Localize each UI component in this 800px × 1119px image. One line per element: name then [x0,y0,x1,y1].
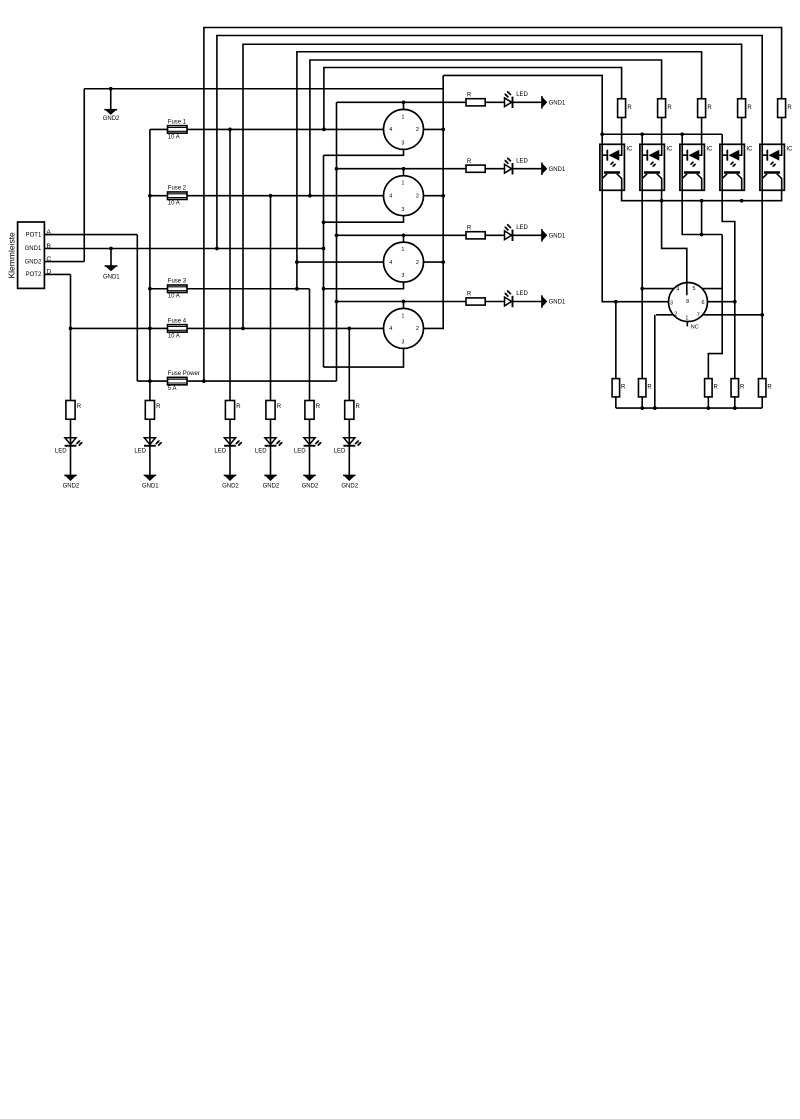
wire IC4 cathode stub [721,134,723,144]
wire CON4 pin1 stub [403,301,405,308]
wire CON5 pin1 stub NC [686,321,688,326]
optocoupler IC5 [760,144,785,190]
wire fuse4 output to conn4 [187,327,384,329]
svg-text:2: 2 [416,326,419,332]
svg-text:3: 3 [401,340,404,346]
svg-text:R: R [467,292,472,298]
svg-text:GND1: GND1 [549,167,566,173]
svg-text:5: 5 [693,286,696,292]
svg-text:5 A: 5 A [168,386,177,392]
node IC2 cathode [640,132,644,136]
svg-text:R: R [356,404,361,410]
svg-text:LED: LED [516,291,528,297]
svg-text:LED: LED [255,448,267,454]
wire D vertical [70,274,72,400]
wire R1 to IC1 [621,118,623,145]
fuse Fuse Power 5 A [168,377,188,385]
resistor R LED ground GND2 column 3 [225,401,234,420]
svg-text:GND2: GND2 [63,484,80,490]
node emitter IC4 [740,199,744,203]
svg-text:R: R [236,404,241,410]
wire IC2 collector vertical [641,190,643,378]
node fuse power input [148,379,152,383]
svg-text:4: 4 [389,326,392,332]
wire line1 top [204,28,782,382]
node conn3 pin4 branch [295,260,299,264]
wire IC cathode rail [602,133,722,135]
wire conn2 pin2 [424,195,444,197]
node emitter IC2 [660,199,664,203]
svg-text:IC: IC [786,146,793,152]
wire line2 top [217,36,762,249]
svg-text:R: R [627,105,632,111]
resistor R LED ground GND2 column 6 [345,401,354,420]
svg-text:R: R [747,105,752,111]
resistor R LED ground GND1 column 2 [145,401,154,420]
node rows bus row3 [335,233,339,237]
svg-text:GND2: GND2 [103,116,120,122]
wire fuse1 input [150,128,168,130]
wire CON1 pin1 stub [403,102,405,109]
svg-text:GND1: GND1 [549,234,566,240]
wire pin B GND1 [44,248,323,250]
optocoupler IC3 [680,144,705,190]
svg-text:R: R [277,404,282,410]
optocoupler IC4 [720,144,745,190]
svg-text:3: 3 [670,300,673,306]
wire CON2 pin1 stub [403,169,405,176]
svg-text:R: R [647,384,652,390]
resistor R vertical 1 top right [618,99,626,118]
wire GND2 net horizontal [84,88,443,90]
wire conn1 pin2 [424,128,444,130]
wire line6 top [324,68,622,130]
svg-text:GND2: GND2 [222,484,239,490]
svg-text:R: R [767,384,772,390]
svg-text:1: 1 [401,313,404,319]
svg-text:10 A: 10 A [168,134,180,140]
node pin2 conn3 [441,260,445,264]
node fuse3 input [148,287,152,291]
optocoupler IC2 [640,144,665,190]
svg-text:IC: IC [706,146,713,152]
resistor R vertical 4 top right [738,99,746,118]
svg-text:7: 7 [697,313,700,319]
resistor R LED GND1 row 3 [337,234,467,236]
node rail b2 [640,406,644,410]
ground GND2 top [109,87,113,91]
wire IC1 cathode feed [443,75,602,144]
wire pin C GND2 [44,261,84,263]
wire R3 to IC3 [701,118,703,145]
svg-text:Fuse Power: Fuse Power [168,371,200,377]
node IC1 cathode [600,132,604,136]
svg-text:R: R [316,404,321,410]
svg-text:LED: LED [134,448,146,454]
wire fuse4 input [71,327,168,329]
node power line1 junction [202,379,206,383]
node fuse1 line6 junction [322,128,326,132]
svg-text:R: R [714,384,719,390]
wire fuse1 output to conn1 [187,128,384,130]
wire IC4 collector path [722,190,735,378]
svg-text:2: 2 [416,193,419,199]
node fuse2 line5 junction [308,194,312,198]
node emitter IC3 [700,199,704,203]
node IC3 cathode [680,132,684,136]
node pin3 GND1 junction [322,247,326,251]
svg-text:POT2: POT2 [26,272,42,278]
wire emitter rail [622,190,782,200]
resistor R LED GND1 row 4 [337,301,467,303]
svg-text:R: R [467,159,472,165]
svg-text:R: R [621,384,626,390]
svg-text:Klemmleiste: Klemmleiste [6,232,16,279]
resistor R bottom right 1 [612,379,620,397]
svg-text:IC: IC [746,146,753,152]
wire C vertical to GND2 net [83,89,85,262]
node rows bus row2 [335,167,339,171]
svg-text:3: 3 [401,273,404,279]
node fuse2 input [148,194,152,198]
wire fuse3 to col5 [309,289,311,401]
svg-text:Fuse 1: Fuse 1 [168,119,187,125]
wire conn1 pin3 [324,149,404,155]
wire R2 to IC2 [661,118,663,145]
wire conn3 pin2 [424,261,444,263]
svg-text:3: 3 [401,207,404,213]
svg-text:LED: LED [516,158,528,164]
node fuse4 input [148,327,152,331]
wire resistor b1 feed [615,302,617,379]
wire IC3 emitter branch [701,201,703,235]
svg-text:10 A: 10 A [168,294,180,300]
node pin7 junction [760,313,764,317]
connector round 4-pin CON4 [384,308,424,348]
svg-text:R: R [156,404,161,410]
fuse Fuse 1 10 A [168,126,188,133]
node fuse3 conn3pin4 branch [295,287,299,291]
terminal block Klemmleiste [18,222,45,288]
svg-text:4: 4 [389,127,392,133]
svg-text:GND1: GND1 [142,484,159,490]
svg-text:LED: LED [516,225,528,231]
node fuse4 col6 branch [347,327,351,331]
svg-text:GND1: GND1 [549,101,566,107]
node fuse4 line3 junction [241,327,245,331]
svg-text:GND1: GND1 [549,300,566,306]
wire IC5 collector vertical [761,190,763,378]
svg-text:R: R [77,404,82,410]
wire col3 feed [229,129,231,400]
optocoupler IC1 [600,144,625,190]
svg-text:R: R [667,105,672,111]
svg-text:LED: LED [55,448,67,454]
wire pin D POT2 [44,273,70,275]
resistor R bottom right 3 [705,379,713,397]
node rows bus row4 [335,300,339,304]
svg-text:3: 3 [401,141,404,147]
wire CON5 pin2 [656,314,673,316]
node rail b3 [707,406,711,410]
svg-text:R: R [467,225,472,231]
node pin2 conn2 [441,194,445,198]
wire pin A POT1 [44,234,137,236]
svg-text:GND1: GND1 [25,246,42,252]
node pin3 conn3 junction [322,287,326,291]
svg-text:10 A: 10 A [168,333,180,339]
svg-text:2: 2 [674,311,677,317]
node pin3 resistor branch [614,300,618,304]
svg-text:R: R [740,384,745,390]
fuse Fuse 2 10 A [168,192,188,200]
resistor R vertical 2 top right [658,99,666,118]
wire CON3 pin1 stub [403,235,405,242]
node IC3 path junction [700,233,704,237]
svg-text:GND1: GND1 [103,274,120,280]
svg-text:1: 1 [401,114,404,120]
wire col6 feed [348,328,350,400]
node pin2 conn1 [441,128,445,132]
svg-text:R: R [787,105,792,111]
wire R4 to IC4 [741,118,743,145]
svg-text:Fuse 4: Fuse 4 [168,318,187,324]
wire R5 to IC5 [781,118,783,145]
resistor R LED ground GND2 column 1 [66,401,75,420]
svg-text:POT1: POT1 [26,232,42,238]
svg-text:GND2: GND2 [263,484,280,490]
node fuse1 col3 branch [228,128,232,132]
wire CON5 pin7 [703,314,763,316]
svg-text:LED: LED [214,448,226,454]
wire pin3 bus vertical [323,155,325,367]
ground GND1 left [109,247,113,251]
resistor R LED GND1 row 2 [337,168,467,170]
svg-text:LED: LED [294,448,306,454]
svg-text:LED: LED [516,92,528,98]
svg-text:1: 1 [401,247,404,253]
svg-text:4: 4 [389,260,392,266]
resistor R bottom right 4 [731,379,739,397]
wire fuse3 output [187,288,310,290]
wire line5 top [310,60,662,196]
wire fuse power output [187,380,337,382]
resistor R LED GND1 row 1 [337,101,467,103]
connector round 4-pin CON1 [384,109,424,149]
wire fuse3 input [150,288,168,290]
wire conn3 pin4 [297,261,384,263]
wire A vertical [136,235,138,382]
wire conn4 pin3 [324,348,404,367]
wire CON5 pin4 [642,288,674,290]
wire fuse2 input [150,195,168,197]
svg-text:LED: LED [334,448,346,454]
node rail pin2 [653,406,657,410]
node rail b4 [733,406,737,410]
wire IC3 collector path [682,190,722,234]
node D fuse4 junction [69,327,73,331]
resistor R vertical 3 top right [698,99,706,118]
resistor R bottom right 5 [758,379,766,397]
node pin4 junction [640,287,644,291]
wire IC1 collector to CON5 pin3 [602,190,668,301]
svg-text:IC: IC [666,146,673,152]
svg-text:6: 6 [702,300,705,306]
svg-text:GND2: GND2 [302,484,319,490]
svg-text:GND2: GND2 [341,484,358,490]
wire rows bus vertical [336,102,338,381]
wire line3 top [243,44,742,328]
wire bottom right rail [616,407,762,409]
wire CON5 pin5 [702,288,722,290]
connector round 4-pin CON3 [384,242,424,282]
node pin6 junction [733,300,737,304]
wire CON5 pin6 [708,301,735,303]
resistor R LED ground GND2 column 5 [305,401,314,420]
wire IC2 cathode stub [641,134,643,144]
wire fuse input bus vertical [149,129,151,400]
svg-text:2: 2 [416,260,419,266]
wire pin5 riser [708,235,722,379]
svg-text:Fuse 3: Fuse 3 [168,279,187,285]
svg-text:R: R [707,105,712,111]
resistor R vertical 5 top right [778,99,786,118]
wire col4 feed [270,196,272,401]
svg-text:8: 8 [686,299,689,305]
svg-text:10 A: 10 A [168,201,180,207]
resistor R bottom right 2 [638,379,646,397]
node line2 GND1 junction [215,247,219,251]
node pin3 conn2 junction [322,220,326,224]
svg-text:1: 1 [401,181,404,187]
svg-text:GND2: GND2 [25,259,42,265]
svg-text:4: 4 [676,287,679,293]
connector round 8-pin CON5 [669,283,708,322]
connector round 4-pin CON2 [384,176,424,216]
wire conn3 pin3 [324,282,404,289]
fuse Fuse 4 10 A [168,325,188,333]
wire IC3 cathode stub [681,134,683,144]
wire pin2 drop [654,315,656,408]
svg-text:4: 4 [389,193,392,199]
svg-text:2: 2 [416,127,419,133]
wire fuse2 output to conn2 [187,195,384,197]
svg-text:NC: NC [691,325,699,331]
wire fuse power input [137,380,167,382]
svg-text:1: 1 [685,315,688,321]
wire pin8 path [662,190,687,295]
resistor R LED ground GND2 column 4 [266,401,275,420]
node fuse2 col4 branch [269,194,273,198]
fuse Fuse 3 10 A [168,285,188,293]
svg-text:IC: IC [626,146,633,152]
wire pin2 bus vertical [424,75,444,328]
svg-text:R: R [467,92,472,98]
wire conn2 pin3 [324,216,404,223]
svg-text:Fuse 2: Fuse 2 [168,186,187,192]
wire line4 top [297,52,702,289]
